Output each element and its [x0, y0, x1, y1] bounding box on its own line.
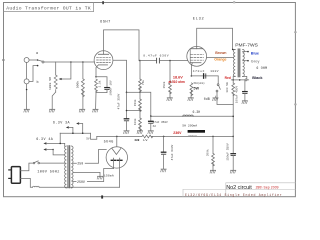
tube EL32 V2 [187, 46, 207, 66]
feedback wire from switch [217, 96, 233, 105]
svg-text:47uF 600V: 47uF 600V [171, 144, 174, 160]
node 47uFx2 [150, 115, 152, 117]
node divider B [139, 110, 141, 112]
rectifier plate lead left [113, 160, 115, 168]
svg-text:Brown: Brown [215, 51, 226, 55]
node divider A [139, 92, 141, 94]
output transformer PMF-7WS [234, 49, 245, 77]
svg-text:100k: 100k [133, 118, 137, 125]
ground (screen cap) [124, 131, 130, 134]
svg-text:5H 200mA: 5H 200mA [182, 124, 197, 128]
resistor 43R rectifier [142, 135, 153, 138]
OPT pin grey [243, 60, 249, 62]
power transformer T1 [65, 146, 73, 188]
EL32 cathode wire [191, 63, 192, 76]
svg-text:1.5k: 1.5k [98, 80, 102, 87]
svg-text:150k: 150k [162, 81, 166, 88]
rectifier filament to B+ [116, 136, 118, 146]
ground (100k) [137, 131, 143, 134]
ground (100uF cap) [242, 101, 248, 104]
heater arrow 3A-2 [76, 122, 83, 133]
svg-text:X2: X2 [153, 125, 157, 128]
B+ node line under OPT [231, 79, 248, 81]
border zone tick right [294, 31, 296, 33]
potentiometer VR1 100k [52, 62, 57, 109]
capacitor 150uF 350V [231, 136, 235, 170]
ground (500k) [79, 109, 85, 112]
svg-text:470uF: 470uF [193, 70, 205, 73]
svg-text:6.3V 4A: 6.3V 4A [36, 138, 54, 142]
capacitor 47uF 600V [161, 136, 165, 169]
svg-text:0dB: 0dB [204, 97, 210, 101]
sheet border frame [4, 3, 296, 197]
ground (47uF 600V) [161, 169, 167, 172]
capacitor 47uF 350V screen [124, 119, 128, 131]
svg-text:250: 250 [77, 162, 83, 166]
node pot drop [70, 61, 72, 63]
svg-text:Grey: Grey [251, 60, 261, 64]
svg-text:5U4G: 5U4G [104, 141, 114, 145]
svg-text:No2 circuit: No2 circuit [226, 185, 252, 191]
node cathode top [95, 76, 97, 78]
svg-text:18.6V: 18.6V [173, 76, 183, 80]
OPT pin blue [243, 51, 249, 53]
ground (200k) [210, 170, 216, 173]
OPT pin red (B+) [233, 76, 235, 80]
switch 0dB [216, 76, 221, 98]
label 250V [77, 180, 88, 184]
border zone tick top [102, 1, 104, 4]
svg-text:100uF 450V: 100uF 450V [236, 86, 239, 104]
ground (grid leak) [167, 98, 173, 101]
rectifier plate lead right [119, 160, 121, 187]
resistor 150k [139, 92, 142, 111]
svg-text:47uF 350V: 47uF 350V [153, 121, 168, 124]
resistor 100k [139, 111, 142, 131]
mains return wire with fuse [20, 178, 119, 187]
svg-text:PMF-7WS: PMF-7WS [235, 43, 258, 49]
ground (150uF) [230, 170, 236, 173]
node plate/coupling [139, 60, 141, 62]
svg-text:6.3H: 6.3H [193, 110, 201, 114]
EL32 plate wire to OPT [197, 28, 233, 49]
grid input wire [44, 61, 95, 63]
ground (1.5k) [93, 109, 99, 112]
cathode to ground wire [95, 93, 97, 110]
svg-text:b: b [37, 80, 39, 85]
svg-text:200k: 200k [206, 149, 210, 156]
svg-text:150mA: 150mA [104, 174, 114, 178]
6SH7 screen wire [113, 60, 127, 118]
wire to pot wiper [61, 62, 71, 79]
node grid resistor [82, 61, 84, 63]
svg-text:150uF 350V: 150uF 350V [227, 143, 230, 161]
svg-text:100k VR: 100k VR [48, 77, 52, 90]
node EL32 cathode [191, 75, 193, 77]
svg-text:EL32/6Y6G/EL34 Single Ended Am: EL32/6Y6G/EL34 Single Ended Amplifier [185, 193, 282, 197]
svg-text:0.47uF 630V: 0.47uF 630V [143, 55, 169, 58]
svg-text:Red: Red [225, 76, 231, 80]
capacitor 47uF 350V x2 [149, 116, 153, 130]
capacitor 0.47uF coupling [140, 58, 188, 63]
resistor 500k grid leak [81, 62, 84, 109]
border zone tick left [2, 59, 4, 61]
svg-text:100V: 100V [210, 70, 219, 73]
choke 6.3H [183, 115, 193, 116]
heater arrow 4A-2 [43, 148, 64, 155]
capacitor 470uF 100V [191, 74, 218, 78]
ground (input jacks) [24, 109, 30, 112]
svg-text:Orange: Orange [214, 58, 226, 62]
svg-text:510(ohm): 510(ohm) [194, 82, 205, 85]
mains plug [9, 167, 21, 184]
ground (47uFx2) [148, 131, 154, 134]
svg-text:Blue: Blue [251, 51, 259, 55]
pot wiper arrow [59, 78, 62, 80]
svg-text:500k: 500k [75, 81, 79, 89]
svg-text:75k: 75k [141, 80, 145, 85]
resistor 200k bleeder [212, 136, 215, 170]
svg-text:250V: 250V [77, 180, 85, 184]
node screen tap [126, 92, 128, 94]
B+ bottom rail [97, 136, 234, 138]
resistor 75k [139, 61, 142, 93]
svg-text:a: a [36, 52, 38, 56]
svg-text:5W: 5W [193, 86, 199, 90]
heater arrow 3A-1 [66, 126, 73, 133]
capacitor 100uF 16V bypass loop [96, 77, 109, 93]
B+ mid rail [140, 92, 234, 117]
resistor 1.5k cathode [95, 79, 98, 93]
svg-text:100V 50Hz: 100V 50Hz [37, 171, 60, 175]
border zone mark top right [233, 1, 235, 3]
svg-text:6.3V 3A: 6.3V 3A [53, 121, 71, 125]
border zone tick bottom [101, 195, 103, 198]
svg-text:6SH7: 6SH7 [100, 20, 111, 24]
input selector switch SW1 [37, 59, 44, 66]
input jack b [24, 66, 37, 84]
label 250 [77, 161, 85, 165]
title block box [183, 183, 295, 197]
6SH7 cathode wire [96, 65, 98, 77]
svg-text:100 5W: 100 5W [226, 82, 229, 93]
HV center tap ground wire [73, 172, 100, 176]
svg-text:28th Sep 2009: 28th Sep 2009 [256, 185, 279, 189]
svg-text:6 OHM: 6 OHM [256, 66, 267, 70]
svg-text:438: 438 [134, 139, 139, 142]
OPT pin brown (plate) [232, 49, 235, 51]
6SH7 plate wire to coupling node [104, 30, 140, 61]
ground (cathode R) [188, 98, 194, 101]
wire screen tap to divider [127, 91, 141, 93]
choke 5H 200mA bar [188, 130, 205, 133]
svg-text:100uF 16V: 100uF 16V [109, 80, 112, 95]
ground (pot) [49, 109, 55, 112]
svg-text:1/W: 1/W [143, 139, 148, 142]
heater arrow 4A-1 [43, 142, 64, 146]
svg-text:47uF 350V: 47uF 350V [118, 93, 121, 109]
rectifier tube 5U4G [106, 147, 127, 168]
svg-text:at 510 ohm: at 510 ohm [169, 80, 185, 84]
node EL32 grid [169, 60, 171, 62]
jack sleeve wire to ground [26, 63, 28, 110]
ground (center tap) [97, 176, 103, 179]
svg-text:5V: 5V [86, 138, 90, 141]
EL32 screen wire to OPT tap [207, 57, 234, 59]
resistor 510 ohm cathode [190, 83, 193, 98]
input jack a [24, 58, 37, 63]
5V winding top link [60, 132, 97, 143]
resistor 150k grid leak EL32 [169, 61, 172, 98]
HV secondary tap 250 [73, 150, 106, 164]
capacitor 100uF 450V [243, 80, 247, 101]
svg-text:Audio Transformer OUT is TK: Audio Transformer OUT is TK [6, 5, 91, 11]
tube 6SH7 V1 [94, 51, 113, 70]
resistor 100 ohm 5W [232, 80, 235, 136]
node 47uF600V [163, 136, 165, 138]
HV secondary tap 250V [73, 169, 113, 182]
svg-text:Black: Black [252, 76, 263, 80]
svg-text:236V: 236V [173, 131, 182, 135]
mains switch [20, 161, 64, 171]
OPT pin black [243, 76, 247, 80]
svg-text:150k: 150k [133, 99, 137, 106]
svg-text:EL32: EL32 [193, 18, 205, 22]
ground (switch) [213, 98, 219, 101]
